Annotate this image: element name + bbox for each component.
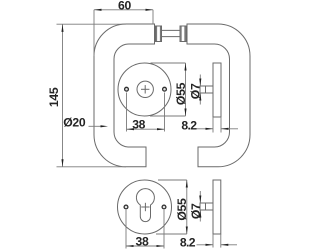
svg-text:Ø7: Ø7 — [189, 203, 203, 219]
svg-text:Ø7: Ø7 — [189, 83, 203, 99]
svg-text:38: 38 — [132, 118, 145, 132]
svg-text:Ø55: Ø55 — [175, 198, 189, 221]
svg-text:Ø55: Ø55 — [174, 82, 188, 105]
svg-text:8.2: 8.2 — [181, 118, 197, 132]
svg-text:8.2: 8.2 — [180, 235, 196, 249]
svg-text:145: 145 — [47, 87, 61, 107]
svg-text:38: 38 — [136, 235, 149, 249]
svg-text:Ø20: Ø20 — [63, 116, 86, 130]
svg-text:60: 60 — [118, 0, 131, 12]
